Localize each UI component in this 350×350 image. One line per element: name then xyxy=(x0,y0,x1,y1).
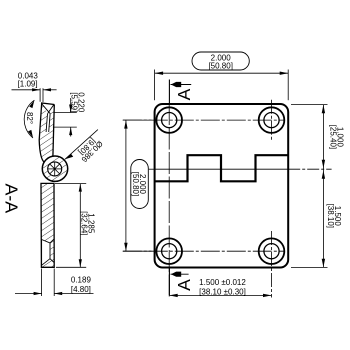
countersink void lower xyxy=(42,240,50,266)
dimension 1.285 xyxy=(55,184,86,268)
dimension 2.000 left vertical (hole spacing) xyxy=(123,120,152,251)
lower countersink lines xyxy=(42,239,55,265)
dimension 1.000 right upper xyxy=(291,105,328,268)
dimension 0.220 xyxy=(53,98,77,137)
svg-text:[38.10 ±0.30]: [38.10 ±0.30] xyxy=(199,288,246,297)
svg-text:[25.40]: [25.40] xyxy=(329,125,338,149)
knuckle castellation xyxy=(155,155,288,181)
countersink void upper xyxy=(43,104,54,132)
svg-text:[32.64]: [32.64] xyxy=(79,211,88,235)
wire: hinge pin centerline right extension xyxy=(288,168,331,170)
wire: hole centerline top row xyxy=(123,119,284,121)
dimension 82 degree arc xyxy=(24,100,34,138)
hole channel lines xyxy=(46,114,47,132)
svg-text:A-A: A-A xyxy=(2,183,22,213)
hinge joint line xyxy=(155,168,288,170)
svg-text:[4.80]: [4.80] xyxy=(71,285,91,294)
section arrow A bottom xyxy=(169,268,194,296)
svg-text:[50.80]: [50.80] xyxy=(208,61,232,70)
svg-text:[1.09]: [1.09] xyxy=(18,79,38,88)
svg-text:A: A xyxy=(174,279,194,291)
wire: hinge pin centerline left stub xyxy=(149,168,155,170)
dimension 1.500 +-0.012 bottom xyxy=(169,294,271,296)
hole top-right counterbore xyxy=(259,107,285,133)
dimension 0.043 top left xyxy=(12,88,57,102)
dimension 1.500 right lower xyxy=(322,170,342,267)
leader dia 0.386 xyxy=(65,130,105,165)
svg-text:82°: 82° xyxy=(25,112,34,124)
plate outline xyxy=(155,104,289,268)
lower leaf hatched body xyxy=(41,183,54,267)
wire: section cut line A-A vertical xyxy=(168,103,170,298)
dimension 0.189 bottom xyxy=(15,269,94,297)
upper leaf hatched body xyxy=(39,103,54,163)
wire: hole centerline bottom row xyxy=(123,250,284,252)
hole bottom-right counterbore xyxy=(259,238,285,264)
countersink cone X lines xyxy=(41,103,50,113)
wire: right column centerline bottom xyxy=(271,231,273,298)
svg-text:1.500 ±0.012: 1.500 ±0.012 xyxy=(199,278,246,287)
dimension 2.000 top width xyxy=(155,52,289,100)
svg-text:[5.59]: [5.59] xyxy=(69,92,78,112)
pivot knuckle xyxy=(42,156,67,181)
svg-text:0.189: 0.189 xyxy=(71,275,92,284)
upper leaf outline xyxy=(39,103,54,162)
section arrow A top xyxy=(169,80,194,104)
wire: right column centerline top xyxy=(271,100,273,141)
hole top-left counterbore xyxy=(156,107,182,133)
svg-text:[38.10]: [38.10] xyxy=(326,204,335,228)
pin spokes xyxy=(48,162,62,176)
svg-text:A: A xyxy=(174,88,194,100)
hole bottom-left counterbore xyxy=(156,238,182,264)
svg-text:[50.80]: [50.80] xyxy=(131,172,140,196)
